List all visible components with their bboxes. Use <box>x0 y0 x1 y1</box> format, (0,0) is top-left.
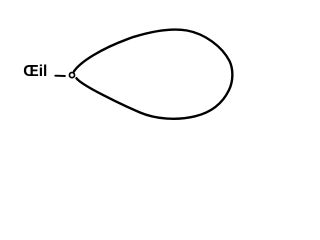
teardrop loop (light path) <box>74 30 232 119</box>
leader dash from label to eye <box>55 75 65 77</box>
svg-text:Œil: Œil <box>23 63 47 80</box>
eye node: small open circle at left vertex <box>69 73 74 78</box>
